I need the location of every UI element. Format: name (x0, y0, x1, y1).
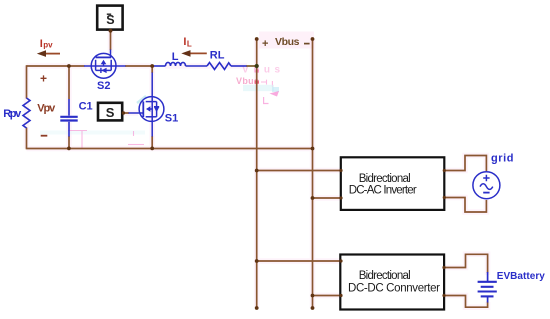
wire S1 branch top (151, 66, 153, 73)
svg-text:DC-AC Inverter: DC-AC Inverter (349, 185, 417, 197)
wire dcdc to battery top (444, 254, 488, 273)
current arrow IL (181, 50, 207, 57)
inductor L (152, 62, 207, 66)
wire dcdc top stub (257, 260, 341, 262)
svg-text:S: S (106, 13, 114, 27)
svg-text:RL: RL (210, 50, 225, 62)
resistor Rpv (23, 98, 30, 128)
block bidirectional DC-DC converter (340, 255, 444, 310)
svg-text:Bidrectional: Bidrectional (359, 270, 411, 282)
label IL (183, 36, 192, 48)
svg-text:EVBattery: EVBattery (497, 271, 545, 282)
svg-text:S: S (106, 105, 115, 120)
battery EVBattery (478, 272, 497, 303)
wire RL-to-bus (246, 65, 257, 67)
transistor S1 (129, 73, 164, 137)
svg-text:Rpv: Rpv (3, 108, 22, 120)
capacitor C1 (60, 99, 77, 137)
ghost artifact cyan band below S box (40, 131, 145, 135)
svg-text:+: + (262, 38, 268, 50)
svg-text:Vpv: Vpv (37, 103, 56, 115)
transistor S2 (84, 50, 126, 79)
svg-text:DC-DC Connverter: DC-DC Connverter (348, 283, 440, 295)
wire C1 bottom lead (68, 136, 70, 149)
wire gate S to S1 (123, 112, 129, 114)
wire dcdc to battery bottom (444, 296, 488, 308)
label Ipv (40, 38, 53, 50)
svg-text:L: L (187, 39, 192, 48)
ghost artifact cyan diagonal near S1 (137, 96, 146, 103)
wire top rail left (27, 65, 85, 67)
wire inverter bottom stub (313, 197, 341, 199)
ghost artifact pink dot on bus (255, 70, 258, 73)
transistor S2 arrows (101, 60, 107, 73)
block bidirectional DC-AC inverter (341, 157, 445, 210)
pink highlight behind Vbus label (259, 32, 314, 49)
wire bottom rail (26, 148, 313, 150)
ghost artifact cyan band near bus (243, 85, 274, 91)
control box Sbar (97, 6, 122, 30)
control box S (98, 103, 122, 121)
wire left vertical lower (26, 128, 28, 149)
resistor RL (207, 63, 247, 70)
ghost artifact pink arrow near bus (270, 91, 280, 97)
svg-text:Bidrectional: Bidrectional (359, 173, 411, 185)
current arrow Ipv (37, 50, 60, 57)
grid AC source (473, 172, 500, 199)
label minus Vbus (304, 43, 310, 45)
wire S1 branch bottom (151, 136, 153, 149)
wire right bus (312, 39, 314, 308)
svg-text:+: + (40, 71, 47, 85)
wire inverter to grid bottom (445, 198, 487, 213)
wire gate Sbar to S2 (110, 31, 112, 51)
wire C1 top lead (68, 66, 70, 99)
label minus Vpv (41, 135, 48, 137)
wire dcdc bottom stub (313, 295, 341, 297)
svg-text:grid: grid (491, 152, 514, 164)
svg-text:L: L (172, 51, 179, 63)
wire inverter top stub (257, 170, 341, 172)
pink halo along wires (27, 31, 488, 309)
wire left vertical upper (26, 65, 28, 98)
svg-text:pv: pv (43, 41, 53, 50)
wire top rail S2-to-S1 (125, 65, 153, 67)
transistor S1 arrows (146, 106, 159, 112)
svg-text:Vbus: Vbus (275, 36, 300, 48)
svg-text:S1: S1 (165, 113, 178, 125)
wire left bus (256, 39, 258, 308)
wire inverter to grid top (445, 156, 487, 172)
ghost artifact pink marks near C1 bottom (68, 131, 144, 149)
svg-text:S2: S2 (97, 80, 110, 92)
svg-text:C1: C1 (79, 100, 93, 112)
